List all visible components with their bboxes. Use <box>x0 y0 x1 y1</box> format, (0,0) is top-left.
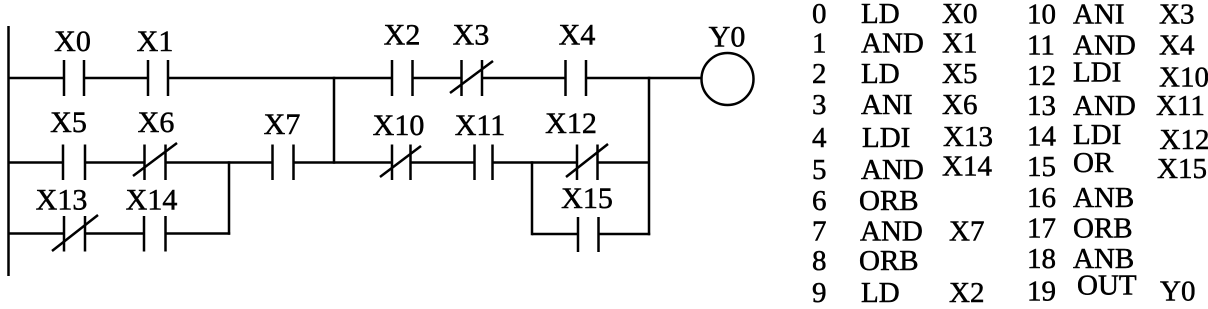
vertical right junction to rung1 <box>648 77 651 235</box>
vertical X15 branch left <box>531 161 534 235</box>
wire X12 to right junction <box>598 161 650 164</box>
svg-text:X6: X6 <box>138 106 175 139</box>
coil Y0 <box>702 53 754 105</box>
svg-text:6ORB: 6ORB <box>812 185 919 217</box>
svg-text:3ANIX6: 3ANIX6 <box>812 89 977 121</box>
vertical junction rung1 to rung2 <box>333 77 336 164</box>
svg-text:7ANDX7: 7ANDX7 <box>812 216 984 248</box>
contact X10 (NC) <box>380 145 421 181</box>
contact X4 <box>566 60 587 96</box>
contact X11 <box>475 145 493 181</box>
svg-text:1ANDX1: 1ANDX1 <box>812 28 977 60</box>
svg-text:10ANIX3: 10ANIX3 <box>1027 0 1194 30</box>
wire X1 to X2 <box>168 77 392 80</box>
contact X7 <box>273 145 294 181</box>
svg-text:X14: X14 <box>126 184 178 217</box>
svg-text:X11: X11 <box>455 109 506 142</box>
contact X2 <box>392 60 413 96</box>
wire X10 to X11 <box>411 161 475 164</box>
contact X1 <box>148 60 168 96</box>
wire rung3 rail to X13 <box>8 232 64 235</box>
wire X0 to X1 <box>84 77 148 80</box>
wire X6 to X7 <box>166 161 273 164</box>
svg-text:5ANDX14: 5ANDX14 <box>812 151 992 187</box>
svg-text:12LDIX10: 12LDIX10 <box>1027 57 1208 94</box>
svg-text:X5: X5 <box>50 106 87 139</box>
contact X3 (NC) <box>450 60 493 96</box>
contact X12 (NC) <box>566 144 608 180</box>
svg-text:X0: X0 <box>54 25 91 58</box>
svg-text:X15: X15 <box>561 182 613 215</box>
contact X5 <box>63 145 85 181</box>
svg-text:Y0: Y0 <box>709 21 746 54</box>
wire X15 branch left to X15 <box>532 233 578 236</box>
svg-text:X13: X13 <box>36 184 88 217</box>
svg-text:19OUTY0: 19OUTY0 <box>1027 269 1195 307</box>
svg-text:X7: X7 <box>264 108 301 141</box>
contact X6 (NC) <box>133 143 177 180</box>
svg-text:0LDX0: 0LDX0 <box>812 0 977 30</box>
contact X13 (NC) <box>52 215 98 252</box>
wire X15 to right junction <box>599 233 651 236</box>
left power rail <box>7 26 10 276</box>
svg-text:17ORB: 17ORB <box>1027 212 1133 244</box>
svg-text:X4: X4 <box>559 19 596 52</box>
svg-text:9LDX2: 9LDX2 <box>812 277 984 309</box>
contact X14 <box>144 216 166 252</box>
wire X2 to X3 <box>413 77 462 80</box>
wire rung2 rail to X5 <box>8 161 63 164</box>
svg-text:2LDX5: 2LDX5 <box>812 58 977 90</box>
wire X7 to X10 <box>294 161 393 164</box>
vertical junction rung3 to rung2 <box>228 161 231 234</box>
wire X14 to branch junction <box>166 232 231 235</box>
wire X4 to coil Y0 <box>586 77 702 80</box>
svg-text:X2: X2 <box>384 19 421 52</box>
svg-text:4LDIX13: 4LDIX13 <box>812 121 993 154</box>
svg-text:X12: X12 <box>545 107 597 140</box>
wire X11 to X12 <box>493 161 578 164</box>
svg-text:16ANB: 16ANB <box>1027 182 1134 214</box>
wire X5 to X6 <box>85 161 145 164</box>
svg-text:13ANDX11: 13ANDX11 <box>1027 90 1205 122</box>
wire X3 to X4 <box>482 77 566 80</box>
svg-text:X10: X10 <box>373 109 425 142</box>
svg-text:X1: X1 <box>137 25 174 58</box>
contact X0 <box>64 60 84 96</box>
svg-text:X3: X3 <box>453 19 490 52</box>
svg-text:8ORB: 8ORB <box>812 245 919 277</box>
svg-text:15ORX15: 15ORX15 <box>1027 147 1207 185</box>
wire X13 to X14 <box>85 232 144 235</box>
wire rung1 rail to X0 <box>8 77 64 80</box>
contact X15 <box>578 217 599 252</box>
